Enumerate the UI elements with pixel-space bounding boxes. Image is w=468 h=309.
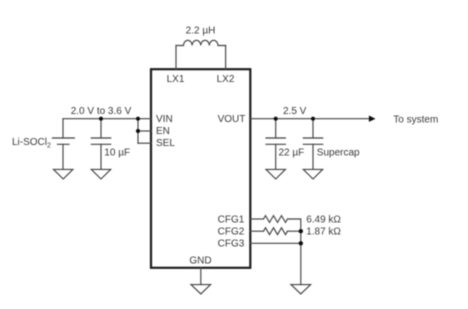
node dot (EN/SEL branch) — [136, 117, 140, 121]
svg-text:Supercap: Supercap — [317, 147, 360, 158]
wire EN/SEL branch vertical — [137, 119, 139, 144]
arrowhead To system — [369, 116, 376, 122]
capacitor C2 22 uF top lead — [275, 119, 277, 138]
wire CFG2 lead — [250, 230, 263, 232]
battery BT1 bottom lead — [62, 144, 64, 169]
node dot (CFG3 / CFG net) — [299, 241, 303, 245]
svg-text:1.87 kΩ: 1.87 kΩ — [306, 227, 341, 238]
svg-text:GND: GND — [189, 256, 211, 267]
capacitor C3 plates — [303, 138, 322, 144]
battery BT1 top lead — [62, 119, 64, 138]
wire VIN row — [63, 118, 151, 120]
svg-text:6.49 kΩ: 6.49 kΩ — [306, 214, 341, 225]
capacitor C2 plates — [266, 138, 285, 144]
ground (C3) — [303, 169, 322, 179]
wire GND pin — [200, 268, 202, 285]
svg-text:VIN: VIN — [156, 114, 173, 125]
wire LX2 vertical — [225, 46, 227, 70]
svg-text:LX1: LX1 — [167, 74, 185, 85]
resistor R1 6.49 k — [264, 216, 288, 223]
svg-text:22 µF: 22 µF — [279, 147, 305, 158]
ground (C1) — [91, 169, 110, 179]
IC U1 body — [151, 69, 250, 268]
svg-text:Li-SOCl2: Li-SOCl2 — [12, 137, 51, 150]
svg-text:SEL: SEL — [156, 138, 175, 149]
svg-text:CFG3: CFG3 — [218, 239, 245, 250]
wire CFG3 row — [250, 242, 300, 244]
wire VOUT row — [250, 118, 369, 120]
wire LX1 vertical — [175, 46, 177, 70]
wire SEL stub — [138, 142, 151, 144]
wire R1 to node — [288, 219, 301, 231]
node dot (R2 / CFG net) — [299, 229, 303, 233]
svg-text:CFG1: CFG1 — [218, 215, 245, 226]
svg-text:2.2 µH: 2.2 µH — [186, 26, 216, 37]
capacitor C2 bottom lead — [275, 144, 277, 169]
inductor L1 2.2 uH — [176, 40, 226, 45]
resistor R2 1.87 k — [264, 228, 288, 235]
ground (C2) — [266, 169, 285, 179]
capacitor C1 bottom lead — [100, 144, 102, 169]
node dot (C2 / VOUT rail) — [274, 117, 278, 121]
svg-text:To system: To system — [393, 115, 438, 126]
svg-text:LX2: LX2 — [217, 74, 235, 85]
ground (GND pin) — [191, 285, 211, 294]
wire CFG1 lead — [250, 218, 263, 220]
svg-text:CFG2: CFG2 — [218, 226, 245, 237]
svg-text:10 µF: 10 µF — [104, 147, 130, 158]
battery BT1 plates — [52, 138, 74, 144]
wire EN stub — [138, 130, 151, 132]
node dot (C3 / VOUT rail) — [311, 117, 315, 121]
wire CFG net down — [300, 231, 302, 284]
node dot (EN) — [136, 129, 140, 133]
svg-text:VOUT: VOUT — [218, 114, 246, 125]
wire R2 to node — [288, 230, 301, 232]
svg-text:2.5 V: 2.5 V — [283, 106, 307, 117]
capacitor C3 Supercap top lead — [312, 119, 314, 138]
ground (battery) — [54, 169, 73, 179]
ground (CFG net) — [291, 285, 311, 294]
node dot (C1 / VIN rail) — [99, 117, 103, 121]
svg-text:EN: EN — [156, 126, 170, 137]
svg-text:2.0 V to 3.6 V: 2.0 V to 3.6 V — [71, 106, 132, 117]
capacitor C1 10 uF top lead — [100, 119, 102, 138]
capacitor C1 plates — [91, 138, 110, 144]
capacitor C3 bottom lead — [312, 144, 314, 169]
